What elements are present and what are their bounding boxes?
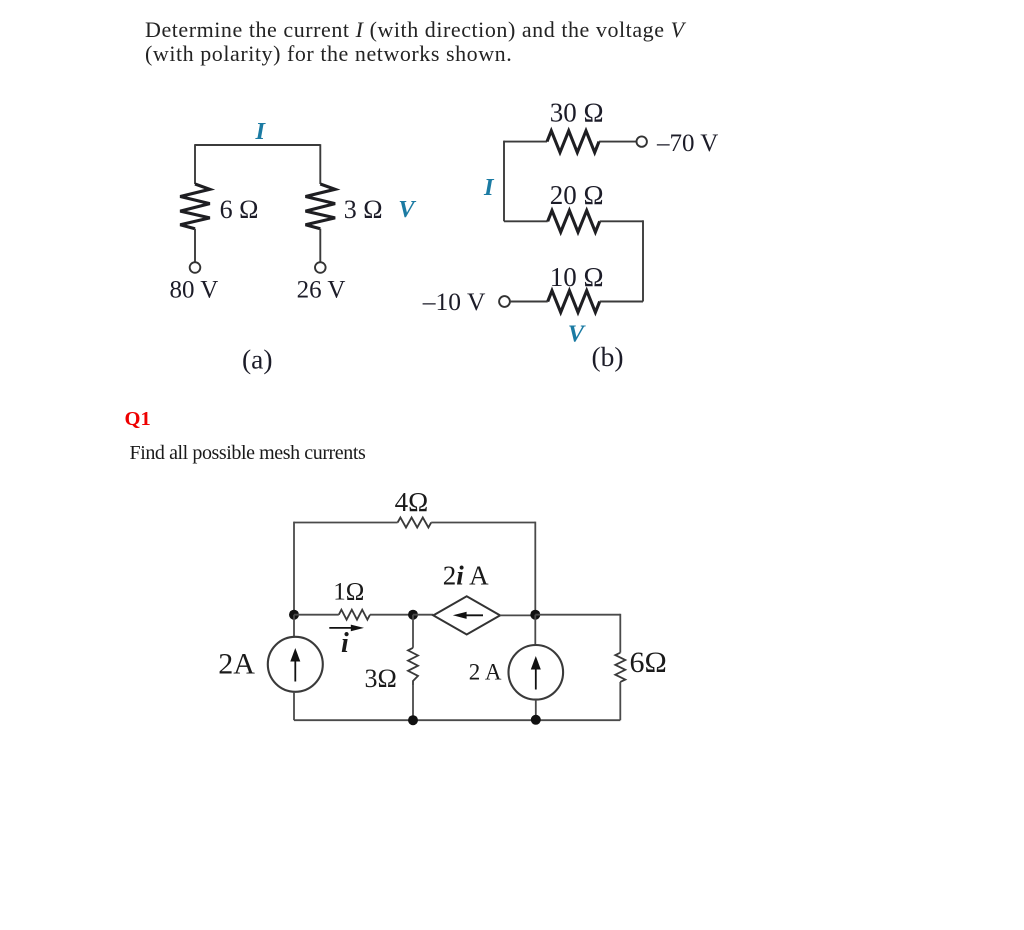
- resistor 6ohm vertical zigzag: [615, 653, 625, 682]
- resistor 6ohm zigzag: [180, 184, 210, 229]
- wire 1ohm to mid junction: [370, 614, 413, 616]
- wire 3ohm to bottom: [412, 686, 414, 720]
- wire left vertical (b): [503, 141, 505, 222]
- junction node left: [289, 610, 299, 620]
- wire right junction to 6ohm branch: [535, 614, 620, 616]
- wire right vertical (b): [642, 220, 644, 301]
- current source 2A right circle: [509, 645, 564, 700]
- wire row2 left (b): [504, 220, 548, 222]
- wire mid to 1ohm: [294, 614, 339, 616]
- svg-text:4Ω: 4Ω: [395, 487, 429, 517]
- svg-text:3 Ω: 3 Ω: [344, 195, 383, 224]
- svg-text:V: V: [568, 321, 586, 348]
- wire 6ohm top: [619, 614, 621, 653]
- current source 2A right arrow: [531, 656, 541, 690]
- svg-text:10 Ω: 10 Ω: [550, 262, 604, 292]
- wire row1 left (b): [504, 141, 547, 143]
- svg-text:3Ω: 3Ω: [365, 664, 397, 693]
- terminal -10V circle: [499, 296, 510, 307]
- junction node bottom mid: [408, 715, 418, 725]
- resistor 1ohm zigzag: [339, 610, 370, 620]
- resistor 3ohm zigzag: [306, 184, 336, 229]
- wire left source to bottom: [293, 692, 295, 721]
- svg-text:I: I: [255, 118, 267, 145]
- wire top right segment: [431, 522, 535, 524]
- svg-text:2 A: 2 A: [469, 660, 502, 685]
- svg-text:6Ω: 6Ω: [630, 646, 667, 679]
- svg-text:i: i: [341, 628, 349, 659]
- wire row2 right (b): [600, 220, 643, 222]
- svg-text:2i A: 2i A: [443, 561, 489, 591]
- svg-text:30 Ω: 30 Ω: [550, 98, 604, 128]
- wire top left segment: [294, 522, 398, 524]
- wire right source to bottom: [535, 700, 537, 721]
- problem statement text: [145, 17, 687, 66]
- resistor 3ohm vertical zigzag: [408, 648, 418, 686]
- svg-text:–70 V: –70 V: [656, 130, 718, 157]
- svg-text:I: I: [483, 174, 495, 201]
- svg-text:1Ω: 1Ω: [333, 579, 364, 606]
- wire right vertical drop: [534, 522, 536, 615]
- svg-text:(a): (a): [242, 344, 273, 375]
- wire mid junction to diamond: [413, 614, 433, 616]
- svg-text:V: V: [398, 196, 416, 223]
- resistor 4ohm zigzag: [398, 518, 432, 528]
- svg-text:Determine the current I (with: Determine the current I (with direction)…: [145, 17, 687, 42]
- current i arrow: [329, 625, 364, 632]
- wire 6ohm bottom: [619, 682, 621, 720]
- wire below 3ohm: [319, 229, 321, 262]
- svg-text:Find all possible mesh current: Find all possible mesh currents: [130, 442, 366, 464]
- wire right junction to source: [534, 615, 536, 646]
- junction node bottom right: [531, 715, 541, 725]
- wire bottom rail: [294, 719, 620, 721]
- wire row3 left (b): [510, 301, 548, 303]
- dependent source arrow: [453, 612, 483, 619]
- svg-text:80 V: 80 V: [170, 277, 219, 304]
- wire left vertical drop: [293, 522, 295, 615]
- svg-text:20 Ω: 20 Ω: [550, 180, 604, 210]
- terminal 80V circle: [190, 262, 201, 273]
- current source 2A left circle: [268, 637, 323, 692]
- wire below 6ohm: [194, 229, 196, 262]
- svg-text:Q1: Q1: [125, 408, 151, 430]
- current source 2A left arrow: [290, 648, 300, 682]
- wire mid junction to 3ohm: [412, 615, 414, 648]
- junction node right: [530, 610, 540, 620]
- svg-text:6 Ω: 6 Ω: [220, 195, 259, 224]
- svg-text:(b): (b): [592, 341, 624, 372]
- svg-text:26 V: 26 V: [297, 277, 346, 304]
- wire diamond to right junction: [500, 614, 535, 616]
- dependent source 2iA diamond: [433, 596, 500, 634]
- svg-text:–10 V: –10 V: [422, 287, 486, 316]
- svg-text:(with polarity) for the networ: (with polarity) for the networks shown.: [145, 41, 512, 66]
- wire left junction to source: [293, 615, 295, 637]
- wire left drop (a): [194, 144, 196, 184]
- terminal 26V circle: [315, 262, 326, 273]
- wire row1 right (b): [599, 141, 637, 143]
- wire right drop (a): [319, 144, 321, 184]
- resistor 10ohm zigzag: [548, 291, 600, 313]
- wire row3 right (b): [600, 301, 643, 303]
- resistor 20ohm zigzag: [548, 211, 600, 233]
- terminal -70V circle: [637, 136, 647, 146]
- svg-text:2A: 2A: [218, 648, 255, 681]
- wire top span (a): [195, 144, 320, 146]
- resistor 30ohm zigzag: [547, 131, 599, 153]
- junction node mid: [408, 610, 418, 620]
